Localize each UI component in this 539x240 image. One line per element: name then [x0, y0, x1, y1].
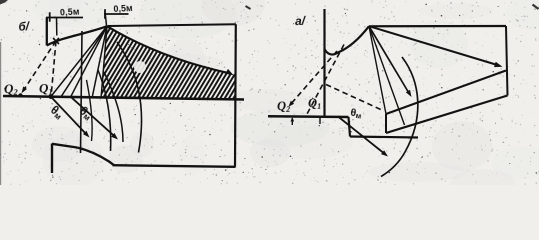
bucket profile curve — [77, 148, 114, 166]
jet upper boundary arrow — [107, 26, 229, 73]
slab right vertical edge — [506, 26, 508, 96]
bucket profile wall — [51, 144, 53, 174]
angle arc large — [117, 42, 142, 153]
angle arc small — [98, 70, 111, 151]
small tick left of label a — [246, 6, 251, 9]
slab back top edge — [369, 25, 506, 27]
hatch scan hole — [134, 61, 146, 73]
jet arrow 1 to far corner — [369, 26, 499, 65]
top boundary line — [108, 24, 236, 26]
Q2 position tick — [291, 118, 293, 125]
top-left corner mark — [0, 0, 8, 5]
fan jet lines from peak — [51, 26, 107, 98]
angle arc middle — [104, 72, 123, 142]
left edge scan bar — [0, 42, 1, 185]
theta arrow right figure — [338, 117, 386, 155]
bottom boundary line — [113, 165, 236, 167]
theta angle arrow 2 — [71, 97, 116, 138]
dashed line to Q1 node — [51, 41, 56, 94]
dimension 0,5M left: dim line with tick — [46, 7, 83, 22]
angle arc inner — [87, 80, 93, 141]
lower ledge — [350, 137, 418, 138]
right figure base line — [268, 115, 349, 118]
dashed hidden trajectory through wall — [326, 85, 384, 112]
right vertical boundary — [234, 24, 237, 167]
jet arrow 2 to slab face — [369, 26, 410, 94]
dimension 0,5M right: extension line — [105, 14, 106, 26]
slab front bottom edge — [386, 96, 508, 134]
main horizontal water line — [3, 96, 244, 100]
dashed trajectory to Q2 — [290, 51, 337, 105]
step vertical — [349, 117, 351, 137]
Q1 position tick — [319, 118, 321, 124]
slab left cap edge — [385, 114, 387, 133]
left wall of spillway — [46, 18, 48, 46]
top-right corner mark — [533, 5, 539, 10]
slab front top edge — [386, 71, 506, 115]
theta angle arrow 1 — [51, 97, 88, 136]
right bucket lip curve — [325, 26, 370, 54]
node Q2 dot — [18, 93, 22, 97]
dashed line to Q2 node — [23, 41, 56, 91]
dimension 0,5M right: dim line with tick — [104, 3, 133, 19]
bucket profile ledge — [52, 144, 77, 148]
x mark source point on lip — [53, 38, 59, 44]
large sweep arc right figure — [381, 57, 418, 177]
dimension 0,5M left: extension line — [56, 18, 58, 36]
hatched jet region — [56, 17, 382, 104]
svg-text:0,5м: 0,5м — [113, 3, 133, 14]
top face left edge from peak — [369, 26, 386, 114]
node Q1 dot — [48, 94, 53, 99]
svg-text:0,5м: 0,5м — [60, 7, 80, 18]
vertical drop line — [81, 31, 83, 153]
bucket lip curve to peak — [47, 26, 107, 45]
dashed trajectory to Q1 — [307, 45, 345, 116]
right wall — [323, 9, 325, 116]
steep jet line from peak — [369, 26, 405, 125]
